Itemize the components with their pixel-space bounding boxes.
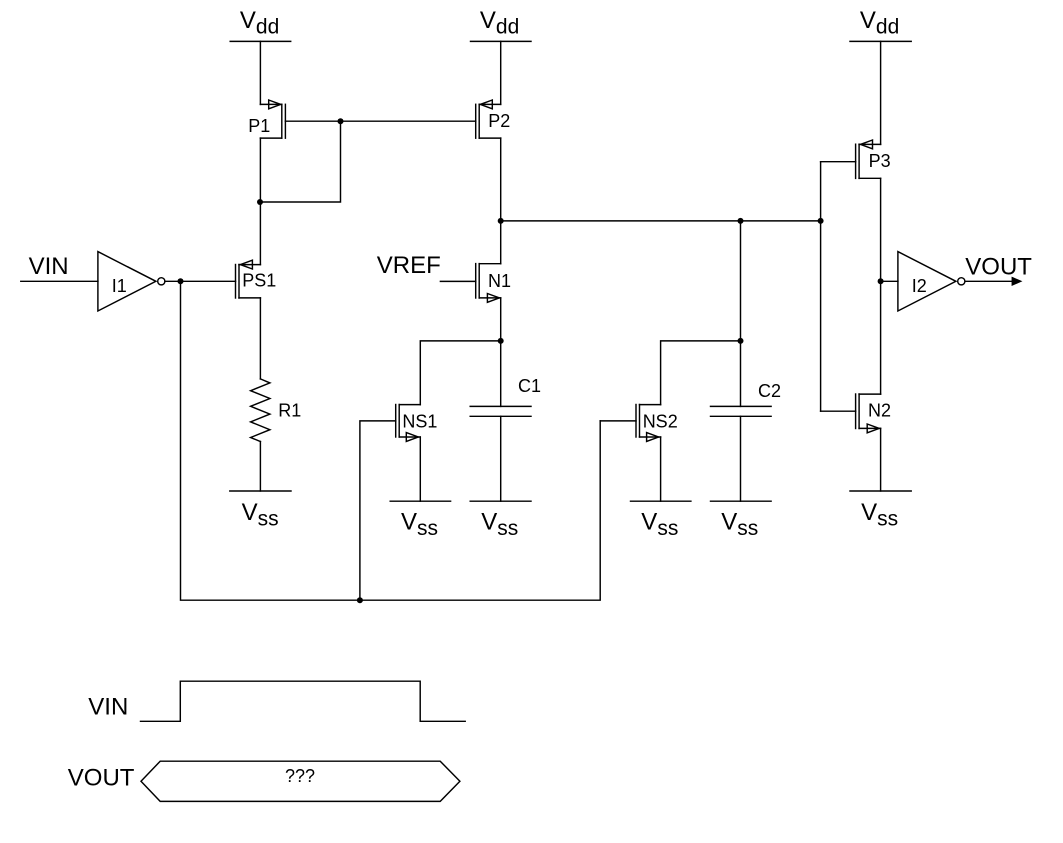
wire P3 gate stub xyxy=(821,161,856,163)
svg-text:I2: I2 xyxy=(912,276,927,296)
svg-text:C2: C2 xyxy=(758,381,781,401)
svg-text:Vss: Vss xyxy=(641,509,678,541)
wire N2 gate stub xyxy=(821,410,856,412)
node junction dot NS2 drain / C2 xyxy=(738,338,744,344)
waveform VIN pulse xyxy=(141,681,466,721)
ground Vss symbol (under N2) xyxy=(850,491,911,530)
svg-text:Vss: Vss xyxy=(242,499,279,531)
wire C1 bottom to ground xyxy=(500,416,502,501)
ground Vss symbol (under R1) xyxy=(230,491,291,530)
svg-text:N1: N1 xyxy=(488,271,511,291)
wire NS1 drain L-path xyxy=(420,341,500,405)
wire P2 drain down to output node xyxy=(500,138,502,221)
wire Vdd1 to P1 source xyxy=(259,41,261,104)
wire P1 drain down to node xyxy=(259,138,261,202)
wire diode-connect loop from drain node up to gate net xyxy=(260,121,340,202)
node junction dot I1 output xyxy=(178,278,184,284)
wire I2 output with arrow xyxy=(966,278,1021,285)
capacitor C2 xyxy=(711,381,782,417)
wire node to N1 drain xyxy=(500,221,502,264)
ground Vss symbol (under NS1) xyxy=(390,501,450,540)
node junction dot P2 drain xyxy=(498,218,504,224)
svg-text:Vss: Vss xyxy=(401,509,438,541)
transistor NS2 (NMOS, gate on left) xyxy=(636,405,678,442)
wire gate net P1 to P2 xyxy=(341,120,476,122)
wire VREF to N1 gate xyxy=(440,280,475,282)
wire node down to PS1 source xyxy=(259,202,261,265)
transistor P3 (PMOS, gate on left) xyxy=(856,140,891,178)
capacitor C1 xyxy=(470,376,541,416)
inverter I1 xyxy=(98,252,165,311)
svg-text:VIN: VIN xyxy=(88,694,128,721)
ground Vss symbol (under C2) xyxy=(711,501,772,540)
transistor P2 (PMOS, gate on left) xyxy=(476,100,511,138)
wire R1 to ground xyxy=(259,442,261,492)
ground Vss symbol (under C1) xyxy=(470,501,531,540)
wire N1 source down xyxy=(500,298,502,341)
transistor N2 (NMOS, gate on left) xyxy=(856,394,891,433)
power Vdd supply symbol (column 3) xyxy=(850,7,911,41)
svg-text:Vss: Vss xyxy=(861,499,898,531)
node junction dot P1 drain / PS1 source xyxy=(257,199,263,205)
svg-text:NS2: NS2 xyxy=(643,412,678,432)
wire main node line across xyxy=(501,220,821,222)
svg-text:NS1: NS1 xyxy=(402,412,437,432)
resistor R1 xyxy=(251,379,302,442)
node junction dot node line / P3-N2 gate branch xyxy=(818,218,824,224)
node junction dot P1 gate net xyxy=(338,118,344,124)
wire C2 branch from node line down xyxy=(740,221,742,407)
inverter I2 xyxy=(898,252,965,311)
svg-text:VIN: VIN xyxy=(29,253,69,280)
svg-text:VOUT: VOUT xyxy=(965,253,1032,280)
transistor NS1 (NMOS, gate on left) xyxy=(396,405,438,442)
wire I1 output to PS1 gate xyxy=(165,280,236,282)
node junction dot feedback / NS1 gate branch xyxy=(357,597,363,603)
svg-text:R1: R1 xyxy=(278,401,301,421)
svg-text:Vdd: Vdd xyxy=(480,7,519,38)
svg-text:P1: P1 xyxy=(248,116,270,136)
ground Vss symbol (under NS2) xyxy=(631,501,691,540)
svg-text:VREF: VREF xyxy=(377,252,441,279)
svg-text:C1: C1 xyxy=(518,376,541,396)
wire C2 bottom to ground xyxy=(740,416,742,501)
svg-text:???: ??? xyxy=(285,766,315,786)
wire VIN input to I1 xyxy=(21,280,98,282)
wire NS2 source to ground xyxy=(660,437,662,501)
wire C1 top xyxy=(500,341,502,407)
svg-text:VOUT: VOUT xyxy=(68,765,135,792)
wire feedback from I1 output down and across xyxy=(181,281,601,600)
transistor PS1 (PMOS, gate on left) xyxy=(236,260,277,298)
svg-text:Vss: Vss xyxy=(481,509,518,541)
wire Vdd2 to P2 source xyxy=(500,41,502,104)
node junction dot N1 source / NS1 drain / C1 xyxy=(498,338,504,344)
svg-text:N2: N2 xyxy=(868,401,891,421)
wire NS1 gate branch xyxy=(360,421,396,600)
wire P3/N2 gate vertical branch xyxy=(820,162,822,412)
transistor N1 (NMOS, gate on left) xyxy=(476,264,511,303)
wire NS2 drain L-path xyxy=(661,341,741,405)
wire N2 source to ground xyxy=(880,428,882,491)
svg-text:PS1: PS1 xyxy=(242,271,276,291)
svg-text:Vss: Vss xyxy=(721,509,758,541)
wire NS1 source to ground xyxy=(419,437,421,501)
node junction dot node line / C2 branch xyxy=(738,218,744,224)
wire P3 drain to N2 drain xyxy=(880,178,882,394)
svg-text:Vdd: Vdd xyxy=(860,7,899,38)
wire NS2 gate stub xyxy=(600,420,636,422)
wire PS1 drain to R1 xyxy=(259,298,261,379)
svg-text:P2: P2 xyxy=(488,111,510,131)
wire Vdd3 to P3 source xyxy=(880,41,882,144)
svg-text:Vdd: Vdd xyxy=(240,7,279,38)
wire I2 input xyxy=(881,280,898,282)
svg-text:I1: I1 xyxy=(112,276,127,296)
svg-text:P3: P3 xyxy=(869,151,891,171)
transistor P1 (PMOS, gate on right) xyxy=(248,100,340,138)
power Vdd supply symbol (column 1) xyxy=(230,7,291,41)
power Vdd supply symbol (column 2) xyxy=(471,7,532,41)
waveform VOUT unknown-bus hexagon xyxy=(141,761,460,801)
node junction dot I2 input xyxy=(878,278,884,284)
